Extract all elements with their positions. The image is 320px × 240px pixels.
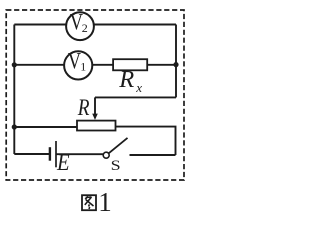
svg-text:V: V	[68, 47, 81, 74]
svg-text:2: 2	[82, 21, 88, 35]
svg-text:R: R	[77, 94, 90, 120]
svg-text:S: S	[111, 156, 121, 173]
svg-text:R: R	[118, 66, 134, 93]
svg-text:E: E	[56, 150, 70, 175]
svg-text:1: 1	[98, 187, 112, 217]
svg-text:1: 1	[80, 60, 86, 74]
svg-text:x: x	[135, 80, 142, 95]
